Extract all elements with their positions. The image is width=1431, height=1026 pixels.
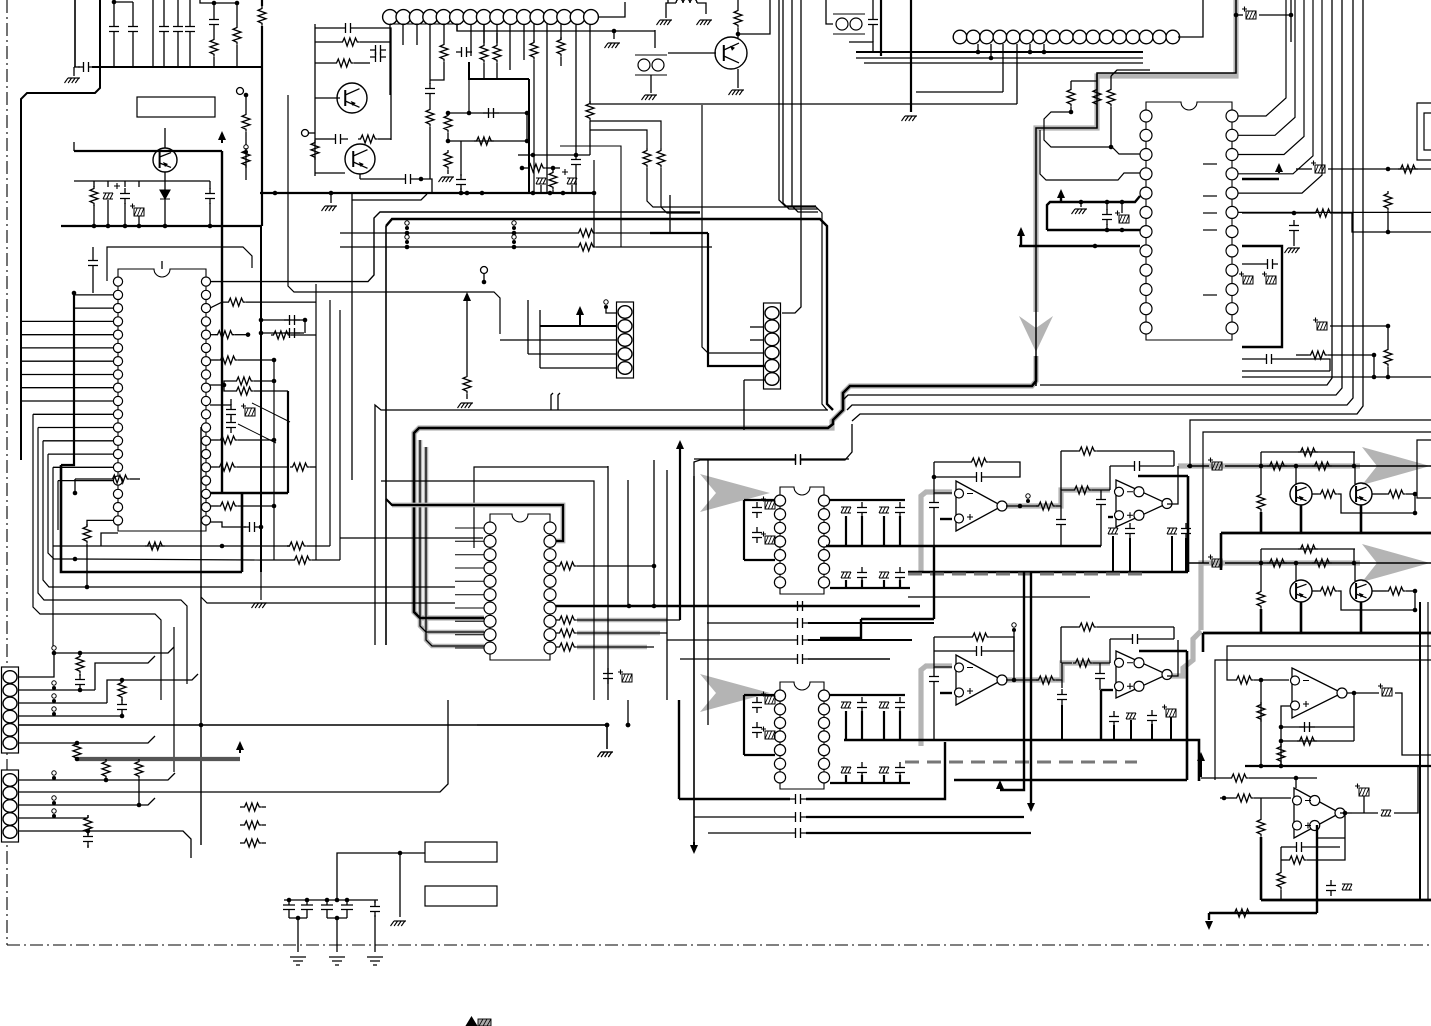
wire 283 xyxy=(1406,493,1415,495)
junction 105 xyxy=(1352,464,1357,469)
wire CN2 drop long 1 xyxy=(1016,44,1018,104)
junction 79 xyxy=(605,723,610,728)
capacitor 46 xyxy=(792,601,808,611)
wire under CN1 1 xyxy=(390,23,461,25)
resistor 4 xyxy=(242,112,250,132)
wire vbundle 3 1 xyxy=(847,0,1353,410)
connector CN4 1 xyxy=(764,303,781,389)
resistor 69 xyxy=(242,803,262,811)
wire row817 1 xyxy=(694,816,790,818)
wire 72 xyxy=(330,193,332,203)
wire CN1 drop 2 xyxy=(402,24,404,45)
trimmer 6 xyxy=(879,572,889,578)
resistor 60 xyxy=(1036,676,1056,684)
wire 114 xyxy=(1333,213,1431,232)
wire thick 12 xyxy=(242,492,288,494)
ground 4 xyxy=(642,95,658,100)
trimmer 4 xyxy=(879,507,889,513)
wire route H v201 1 xyxy=(200,427,202,845)
wire thick base feed 1 xyxy=(74,150,222,152)
wire 278 xyxy=(1295,466,1297,484)
wire 154 xyxy=(238,359,274,361)
gray trace bus3 1 xyxy=(426,447,484,646)
junction 23 xyxy=(574,153,579,158)
capacitor 7 xyxy=(340,23,356,33)
wire CN1 drop 8 xyxy=(483,24,485,43)
wire 182 xyxy=(291,334,316,336)
capacitor 2 xyxy=(173,21,183,37)
wire 242 xyxy=(1130,720,1132,740)
capacitor 64 xyxy=(75,674,85,690)
wire 79 xyxy=(613,31,615,39)
wire CN2 stub 2 xyxy=(990,44,992,58)
wire row92 1 xyxy=(916,91,1003,93)
wire 255 xyxy=(105,759,107,760)
wire v680 arrow 1 xyxy=(679,446,681,620)
transistor Q 4 xyxy=(1350,580,1372,602)
wire thick 16 xyxy=(830,499,905,501)
capacitor 55 xyxy=(929,671,939,687)
wire 89 xyxy=(872,0,874,14)
capacitor 24 xyxy=(284,315,300,325)
gray arrow 2 1 xyxy=(700,674,770,712)
arrow down 3 xyxy=(1205,921,1213,930)
wire 175 xyxy=(307,545,330,547)
wire thick 21 xyxy=(830,694,905,696)
wire 43 xyxy=(315,138,330,140)
wire CN1 drop 12 xyxy=(533,24,535,42)
resistor 80 xyxy=(1298,545,1318,553)
wire thick stub 10 xyxy=(845,775,847,783)
pin mark 5 xyxy=(1203,294,1217,296)
wire v654 1 xyxy=(653,460,655,606)
wire 299 xyxy=(1260,680,1262,766)
wire route v175 1 xyxy=(173,627,175,772)
wire 39 xyxy=(315,41,340,43)
junction 75 xyxy=(652,604,657,609)
wire 104 xyxy=(1121,202,1123,213)
wire U3 right 1 xyxy=(1238,211,1431,213)
wire 206 xyxy=(1110,465,1129,467)
junction 87 xyxy=(605,723,610,728)
wire 222 xyxy=(934,637,952,667)
capacitor 30 xyxy=(752,502,762,518)
ground 17 xyxy=(367,957,383,965)
junction 71 xyxy=(220,544,225,549)
wire 247 xyxy=(627,700,629,725)
wire 99 xyxy=(1096,107,1098,128)
wiper arrow xyxy=(238,403,290,443)
wire row233 1 xyxy=(340,232,576,234)
wire 218 xyxy=(908,605,920,607)
wire 268 xyxy=(374,900,376,903)
junction 94 xyxy=(287,898,292,903)
wire 231 xyxy=(1061,626,1077,628)
wire 105 xyxy=(1236,14,1243,16)
wire 38 xyxy=(356,28,391,48)
wire thick 39 xyxy=(679,798,790,800)
wire U1 pin 5 xyxy=(21,347,113,349)
resistor 93 xyxy=(1232,909,1252,917)
wire cap top link 1 xyxy=(114,1,133,3)
wire 50 xyxy=(416,179,432,193)
junction 72 xyxy=(73,491,78,496)
capacitor 52 xyxy=(1125,523,1135,539)
resistor 54 xyxy=(557,643,577,651)
gray arrow ch2 1 xyxy=(1362,544,1430,582)
trimmer 13 xyxy=(1126,713,1136,719)
resistor 24 xyxy=(734,8,742,28)
wire 229 xyxy=(1061,680,1063,688)
wire v779 1 xyxy=(779,0,816,206)
op-amp U7B 1 xyxy=(1115,651,1173,698)
test point 11 xyxy=(52,694,56,703)
plus 2 xyxy=(562,169,568,175)
wire bus58b 1 xyxy=(856,57,1143,59)
wire thick 45 xyxy=(1360,505,1363,533)
wire 193 xyxy=(934,476,971,478)
wire 3 xyxy=(132,2,134,21)
wire 83 xyxy=(697,3,706,14)
wire 174 xyxy=(287,545,290,547)
wire thick bus572 1 xyxy=(908,571,1188,574)
wire row725 1 xyxy=(477,724,607,726)
wire 150 xyxy=(261,319,305,321)
wire 290 xyxy=(1295,563,1297,581)
wire 177 xyxy=(312,559,340,561)
resistor 39 xyxy=(234,377,254,385)
test point 13 xyxy=(52,771,56,780)
transformer T1 1 xyxy=(635,55,667,75)
resistor 67 xyxy=(135,759,143,779)
wire 98 xyxy=(1070,107,1072,112)
thick signal line 1 xyxy=(78,757,240,761)
wire 205 xyxy=(1060,451,1062,490)
resistor 53 xyxy=(557,629,577,637)
wire 117 xyxy=(1277,359,1330,371)
electrolytic C+ 15 xyxy=(1208,458,1222,471)
ground 15 xyxy=(290,957,306,965)
wire row677 1 xyxy=(18,653,54,677)
electrolytic C+ 7 xyxy=(1313,318,1327,331)
wire 276 xyxy=(1260,452,1262,466)
wire right edge v2 1 xyxy=(1427,602,1429,900)
wire 304 xyxy=(1281,740,1354,742)
wire thick 6 xyxy=(1047,229,1140,231)
resistor 52 xyxy=(557,616,577,624)
wire 307 xyxy=(1220,797,1234,799)
wire U1 pin 15 xyxy=(58,480,113,482)
wire thick 7 xyxy=(1020,234,1022,246)
wire 312 xyxy=(1281,846,1291,848)
resistor 82 xyxy=(1386,587,1406,595)
wire 95 xyxy=(1096,74,1098,87)
wire U3 right up 2 xyxy=(1238,0,1295,135)
capacitor 4 xyxy=(209,14,219,30)
junction 90 xyxy=(75,757,80,762)
wire thick bus 2 xyxy=(1203,632,1431,635)
capacitor 13 xyxy=(425,83,435,99)
junction 98 xyxy=(345,898,350,903)
wire v261 1 xyxy=(260,226,262,572)
capacitor 68 xyxy=(1299,722,1315,732)
wire U1 pin 3 xyxy=(21,320,113,322)
wire thick 13 xyxy=(743,500,745,560)
wire 165 xyxy=(310,466,316,468)
resistor 9 xyxy=(311,140,319,160)
wire 80 xyxy=(654,30,656,48)
junction 8 xyxy=(163,224,168,229)
wire 76 xyxy=(522,167,526,169)
gray trace ch2 out 1 xyxy=(1201,563,1360,630)
resistor 87 xyxy=(1277,744,1285,764)
resistor 45 xyxy=(83,524,91,544)
wire bus upper 1 xyxy=(375,405,828,645)
wire 25 xyxy=(138,181,140,187)
wire 167 xyxy=(238,505,274,507)
wire 266 xyxy=(240,842,242,844)
junction 41 xyxy=(1109,145,1114,150)
junction 80 xyxy=(626,723,631,728)
IC U5 1 xyxy=(774,682,829,789)
electrolytic C+ 1 xyxy=(130,204,144,217)
junction 96 xyxy=(325,898,330,903)
wire 235 xyxy=(1143,638,1174,640)
wire 124 xyxy=(1373,355,1375,377)
wire 176 xyxy=(261,559,292,561)
ground 3 xyxy=(605,43,621,48)
capacitor 39 xyxy=(895,697,905,713)
junction 102 xyxy=(1188,464,1193,469)
wire 225 xyxy=(1013,632,1015,680)
resistor 30 xyxy=(1313,209,1333,217)
wire bus63 1 xyxy=(864,62,1143,64)
junction 25 xyxy=(273,191,278,196)
pin mark 3 xyxy=(1203,212,1217,214)
resistor 40 xyxy=(234,387,254,395)
wire thick 19 xyxy=(744,694,775,696)
capacitor 29 xyxy=(603,668,613,684)
wire 163 xyxy=(210,466,217,468)
wire 63 xyxy=(447,133,449,141)
wire 223 xyxy=(933,667,935,671)
wire thick 36 xyxy=(1000,572,1024,790)
electrolytic C+ 5 xyxy=(1239,272,1253,285)
arrow up 8 xyxy=(996,780,1004,789)
wire 204 xyxy=(1097,450,1174,452)
wire 108 xyxy=(1296,168,1312,170)
wire 115 xyxy=(1242,263,1262,265)
capacitor 33 xyxy=(895,502,905,518)
wire 126 xyxy=(806,424,852,460)
wire 221 xyxy=(987,637,1014,651)
junction 106 xyxy=(1413,511,1418,516)
wire gnd stub 1 xyxy=(73,67,75,76)
wire 244 xyxy=(1170,717,1172,740)
trimmer 8 xyxy=(879,702,889,708)
junction 48 xyxy=(1234,13,1239,18)
wire nest 4 1 xyxy=(340,537,483,539)
resistor 89 xyxy=(1229,774,1249,782)
junction 57 xyxy=(592,191,597,196)
resistor 27 xyxy=(1107,87,1115,107)
wire 257 xyxy=(138,759,140,760)
wire 146 xyxy=(210,302,226,308)
wire 151 xyxy=(261,332,304,334)
wire nest 2 1 xyxy=(381,481,594,700)
wire thick 8 xyxy=(1019,245,1140,247)
wire U3 nest A 1 xyxy=(1044,112,1140,154)
wire bundle drop3 1 xyxy=(426,447,484,646)
wire thick stub 1 xyxy=(845,516,847,546)
wire row587 1 xyxy=(87,586,455,588)
wire U2 pin stub 9 xyxy=(455,634,484,636)
resistor 44 xyxy=(218,502,238,510)
dashed line ch2 1 xyxy=(905,761,1137,764)
wire thick 31 xyxy=(940,692,952,694)
wire base Q4 1 xyxy=(668,52,716,54)
electrolytic C+ 10 xyxy=(761,497,775,510)
wire 1 xyxy=(113,2,115,21)
wire 181 xyxy=(260,572,262,600)
junction 63 xyxy=(259,331,264,336)
wire 42 xyxy=(354,62,370,64)
junction 107 xyxy=(1413,492,1418,497)
capacitor 47 xyxy=(971,472,987,482)
pin mark 1 xyxy=(1203,163,1217,165)
resistor 62 xyxy=(1077,623,1097,631)
resistor 78 xyxy=(1267,559,1287,567)
wire 211 xyxy=(1100,510,1102,546)
resistor 77 xyxy=(1257,492,1265,512)
wire CN1 drop 10 xyxy=(509,24,511,70)
wire 66 xyxy=(460,141,462,176)
wire 5 xyxy=(163,0,165,21)
resistor 5 xyxy=(242,148,250,168)
box right edge2 1 xyxy=(1424,113,1431,150)
wire thick 37 xyxy=(1030,572,1032,806)
electrolytic C+ 18 xyxy=(1355,784,1369,797)
wire 75 xyxy=(571,185,573,193)
wire 107 xyxy=(1290,0,1292,42)
wire thick stub 7 xyxy=(899,516,901,546)
wire 284 xyxy=(1414,494,1416,513)
junction 114 xyxy=(1352,691,1357,696)
resistor 48 xyxy=(292,556,312,564)
wire 289 xyxy=(1353,549,1355,563)
wire 298 xyxy=(1254,679,1289,681)
resistor 47 xyxy=(287,542,307,550)
wire thick 2 xyxy=(880,0,882,56)
wire 30 xyxy=(209,181,211,189)
wire 153 xyxy=(210,359,218,361)
capacitor 66 xyxy=(83,831,93,847)
wire thick stub 5 xyxy=(883,516,885,546)
wire long104 1 xyxy=(590,103,1017,105)
wire 184 xyxy=(577,565,654,567)
test point 14 xyxy=(52,796,56,805)
wire 200 xyxy=(1092,489,1110,491)
wire row725 long 1 xyxy=(18,724,607,726)
gray stub r2 1 xyxy=(577,631,660,636)
capacitor 70 xyxy=(1326,880,1336,896)
test point 12 xyxy=(52,707,56,716)
wire 88 xyxy=(737,69,739,88)
wire 203 xyxy=(1061,450,1077,452)
wire 264 xyxy=(240,824,242,826)
capacitor 21 xyxy=(1261,354,1277,364)
dashed line ch1 1 xyxy=(908,573,1142,576)
arrow up 7 xyxy=(676,440,684,450)
wire 47 xyxy=(315,172,345,174)
resistor 32 xyxy=(1384,347,1392,367)
wire 321 xyxy=(1394,766,1418,813)
wire CN1 drop 9 xyxy=(496,24,498,43)
wire 70 xyxy=(589,121,591,155)
wire 97 xyxy=(1111,70,1150,76)
wire 261 xyxy=(87,845,89,848)
resistor 19 xyxy=(530,40,538,60)
wire thick CS1 1 xyxy=(540,325,617,327)
wire 138 xyxy=(540,367,617,369)
frame 3 1 xyxy=(1215,660,1431,780)
junction 31 xyxy=(561,191,566,196)
wire U2 pin stub 5 xyxy=(455,580,484,582)
wire U1 pin 10 xyxy=(33,413,113,415)
wire 269 xyxy=(374,915,376,952)
wire 122 xyxy=(1387,326,1389,347)
wire route H branch 1 xyxy=(201,597,455,603)
wire 101 xyxy=(1080,202,1082,207)
capacitor 9 xyxy=(370,45,386,55)
capacitor 17 xyxy=(868,14,878,30)
junction 118 xyxy=(1259,764,1264,769)
wire 131 xyxy=(590,121,661,148)
wire 152 xyxy=(304,320,306,333)
transistor Q 1 xyxy=(1290,483,1312,505)
wire 274 xyxy=(1187,465,1209,467)
capacitor 45 xyxy=(792,654,808,664)
wire thick 3 xyxy=(910,0,912,112)
wire row459 1 xyxy=(694,458,790,460)
capacitor 23 xyxy=(88,255,98,271)
junction 119 xyxy=(1222,796,1227,801)
wire thick v222 1 xyxy=(221,151,223,493)
gray trace nest 1 xyxy=(392,505,563,541)
wire 170 xyxy=(260,526,261,528)
junction 108 xyxy=(1259,561,1264,566)
junction 50 xyxy=(1386,167,1391,172)
resistor 64 xyxy=(118,680,126,700)
resistor 28 xyxy=(1384,191,1392,211)
wire thick 29 xyxy=(861,618,934,620)
resistor 74 xyxy=(1298,448,1318,456)
wire 248 xyxy=(79,674,81,676)
junction 64 xyxy=(303,318,308,323)
wire CN1 drop 14 xyxy=(560,24,562,40)
wire 36 xyxy=(245,154,247,180)
capacitor 35 xyxy=(895,567,905,583)
wire v694 1 xyxy=(693,476,695,846)
wire 186 xyxy=(556,632,557,634)
wire cap lead 1 xyxy=(74,66,80,68)
wire 158 xyxy=(254,390,288,392)
capacitor 53 xyxy=(1181,523,1191,539)
wire CN2 tail 1 xyxy=(1178,0,1203,37)
wire thick 44 xyxy=(1300,505,1303,533)
arrow up 4 xyxy=(1275,163,1283,173)
capacitor 51 xyxy=(1096,494,1106,510)
